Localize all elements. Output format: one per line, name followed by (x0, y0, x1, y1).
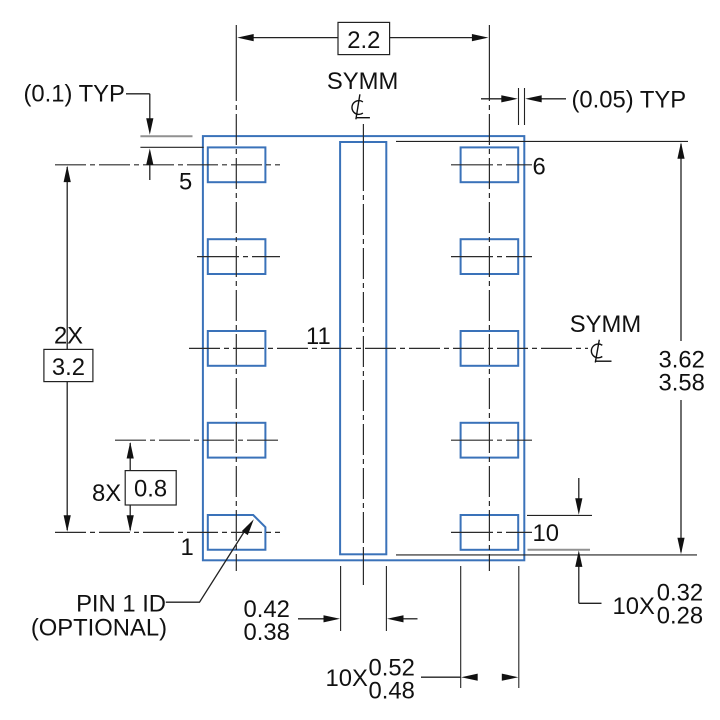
arrow 2.2 right (472, 34, 489, 41)
row E centerline left (55, 531, 280, 533)
arrow 0.1 down (146, 118, 153, 135)
arrow 0.42 left (387, 615, 404, 622)
arrow 0.1 up (146, 148, 153, 165)
dim box 0.8 (125, 471, 176, 505)
svg-text:2X: 2X (54, 322, 83, 349)
row A centerline left (55, 164, 280, 166)
svg-text:SYMM: SYMM (570, 311, 641, 338)
centerline symbol top (352, 94, 370, 119)
pad 1 (chamfered) (208, 515, 266, 550)
pad 5 (208, 147, 266, 182)
row D centerline left (115, 439, 280, 441)
arrow 0.32 up (575, 550, 582, 567)
arrow 3.62 down (677, 538, 684, 555)
pad 8 (461, 331, 519, 366)
dimension 3.62/3.58 (680, 144, 682, 552)
extension pad6 right (518, 88, 520, 125)
svg-text:0.28: 0.28 (657, 603, 703, 630)
arrow 2.2 left (237, 34, 254, 41)
dimension 8X 0.8 (129, 443, 131, 530)
svg-text:10: 10 (533, 520, 559, 547)
svg-text:5: 5 (179, 169, 192, 196)
dimension 2.2 line (253, 37, 473, 39)
extension pad10 right edge (518, 566, 520, 688)
centerline right column (488, 25, 490, 571)
dimension 2X 3.2 (66, 167, 68, 530)
package body outline (203, 136, 524, 560)
svg-text:0.48: 0.48 (369, 677, 415, 704)
arrow 0.8 up (127, 442, 134, 459)
extension thermal pad bottom right (396, 554, 697, 556)
extension pad10 left edge (460, 566, 462, 688)
arrow 3.2 down (64, 515, 71, 532)
centerline left column (235, 25, 237, 571)
pad 6 (461, 147, 519, 182)
svg-text:3.2: 3.2 (52, 354, 85, 381)
svg-text:0.8: 0.8 (134, 476, 167, 503)
extension thermal pad top right (396, 140, 688, 142)
arrow 0.42 right (324, 615, 341, 622)
arrow 3.2 up (64, 166, 71, 183)
svg-text:2.2: 2.2 (347, 27, 380, 54)
row D centerline right (451, 439, 532, 441)
dim 0.05 lines (481, 98, 566, 100)
centerline middle vertical (362, 124, 364, 160)
row E centerline right (451, 531, 532, 533)
row B centerline right (451, 256, 532, 258)
arrow 0.32 down (575, 498, 582, 515)
centerline middle horizontal (189, 347, 588, 349)
svg-text:3.58: 3.58 (659, 369, 705, 396)
svg-text:0.38: 0.38 (244, 619, 290, 646)
row B centerline left (197, 256, 280, 258)
svg-text:SYMM: SYMM (327, 68, 398, 95)
arrow 0.52 left (461, 674, 478, 681)
pad 3 (208, 331, 266, 366)
extension slot right (385, 566, 387, 631)
arrow pin1 id (242, 519, 254, 535)
extension pad10 bottom (gray) (528, 549, 591, 551)
extension body right (524, 88, 526, 125)
dimension 10X 0.52/0.48 (421, 676, 461, 678)
svg-text:8X: 8X (92, 480, 121, 507)
dim box 3.2 (44, 349, 93, 381)
pad 2 (208, 423, 266, 458)
pad 10 (461, 515, 519, 550)
leader (0.1) (126, 94, 150, 180)
svg-text:(0.1) TYP: (0.1) TYP (24, 80, 125, 107)
arrow 0.52 right (502, 674, 519, 681)
svg-text:10X: 10X (326, 665, 368, 692)
pad 9 (461, 423, 519, 458)
extension pad5 top left (140, 146, 203, 148)
extension pad10 top (527, 514, 592, 516)
centerline symbol right (591, 340, 611, 363)
pad 4 (208, 239, 266, 274)
row A centerline right (451, 164, 532, 166)
arrow 3.62 up (677, 142, 684, 159)
svg-text:6: 6 (533, 154, 546, 181)
svg-text:11: 11 (306, 323, 331, 350)
extension package top left (gray) (140, 135, 192, 137)
extension slot left (340, 566, 342, 631)
dimension 0.42/0.38 (298, 618, 418, 620)
thermal pad 11 (center slot) (340, 142, 386, 554)
pad 7 (461, 239, 519, 274)
svg-text:1: 1 (181, 534, 194, 561)
arrow 0.05 left (525, 95, 542, 102)
svg-text:(0.05) TYP: (0.05) TYP (572, 87, 687, 114)
arrow 0.05 right (501, 95, 518, 102)
arrow 0.8 down (127, 515, 134, 532)
dim box 2.2 (338, 22, 390, 54)
svg-text:PIN 1 ID: PIN 1 ID (76, 590, 166, 617)
dimension 10X 0.32/0.28 (579, 478, 602, 603)
svg-text:10X: 10X (613, 593, 655, 620)
svg-text:(OPTIONAL): (OPTIONAL) (31, 614, 167, 641)
leader pin1 id (166, 527, 248, 603)
